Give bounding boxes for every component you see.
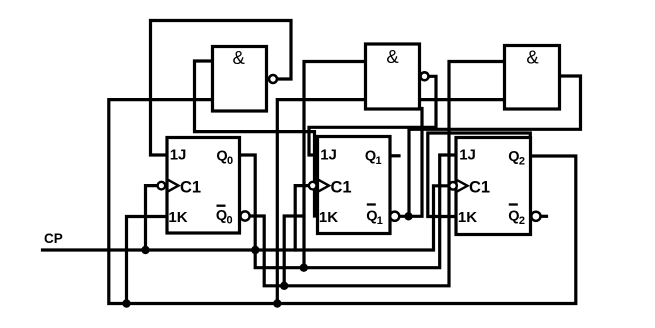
svg-text:Q: Q [365,149,376,165]
flip-flop FF2 clock bubble [309,182,317,190]
wire NAND1 upper input from FF2 1K net [195,61,318,216]
svg-text:0: 0 [227,215,233,227]
svg-text:Q: Q [216,208,227,224]
svg-text:2: 2 [519,215,525,227]
junction dot CP to FF1 clock [141,246,149,254]
junction dot Q1bar at NAND3 return [404,212,412,220]
wire FF2 clock tap from CP [295,186,308,250]
svg-text:1: 1 [376,155,382,167]
flip-flop FF1 [167,138,240,234]
flip-flop FF1 clock bubble [158,182,166,190]
svg-text:Q: Q [216,149,227,165]
junction dot bottom bus to FF1 1K [122,299,130,307]
svg-text:Q: Q [508,149,519,165]
wire NAND2 lower input to bottom bus [277,100,365,304]
junction dot y285 bus branch [280,282,288,290]
flip-flop FF3 clock bubble [449,182,457,190]
svg-text:C1: C1 [331,179,352,197]
svg-text:1J: 1J [320,147,337,164]
wire NAND1 output feedback loop to FF1 1J [151,21,292,156]
svg-text:&: & [386,46,399,67]
wire FF1 clock tap from CP [146,186,158,250]
svg-text:1K: 1K [168,209,187,226]
svg-text:2: 2 [519,156,525,168]
wire FF3 1K feed from FF3 top corner loop [428,133,531,217]
svg-text:1: 1 [377,215,383,227]
svg-text:1K: 1K [458,209,477,226]
wire NAND3 lower input [420,98,505,101]
svg-text:C1: C1 [180,179,201,197]
svg-text:Q: Q [366,209,377,225]
svg-text:1K: 1K [319,209,338,226]
junction dot y268 bus at NAND2 upper input [300,264,308,272]
wire Q1 output stub [390,154,399,157]
wire Q0 output to y268 bus to FF3 1J [240,155,457,268]
flip-flop FF1 Q0bar bubble [240,211,249,220]
flip-flop FF3 Q2bar bubble [531,212,540,221]
svg-text:CP: CP [44,231,63,246]
svg-text:Q: Q [508,209,519,225]
svg-text:C1: C1 [469,179,490,197]
flip-flop FF3 clock triangle [456,180,468,193]
NAND gate G1 output bubble [269,75,277,83]
NAND gate G2 [366,44,420,109]
svg-text:1J: 1J [459,147,476,164]
wire NAND3 output to Q1bar junction [409,76,581,216]
svg-text:1J: 1J [170,147,187,164]
wire FF1 1K from bottom bus [127,217,168,304]
flip-flop FF2 Q1bar bubble [390,212,399,221]
wire branch from Q0bar net vertical to y285 bus [284,216,304,286]
NAND gate G2 output bubble [421,72,429,80]
flip-flop FF2 clock triangle [318,179,330,192]
wire NAND1 lower input / bottom bus / Q2 output [109,100,576,304]
wire CP clock line to FF3 clock [43,186,449,250]
svg-text:0: 0 [227,155,233,167]
junction dot CP at Q0 line [251,246,259,254]
wire Q1bar extension up to NAND2 corner [399,109,422,217]
wire Q0bar output to y285 bus to NAND3 upper input [249,62,504,286]
wire NAND2 upper input to y268 bus junction [304,62,366,268]
flip-flop FF1 clock triangle [167,179,179,192]
svg-text:&: & [526,47,539,68]
wire Q2bar output stub [540,215,546,218]
svg-text:&: & [233,47,246,68]
wire NAND2 output to FF2 1J [309,76,436,155]
junction dot bottom bus at NAND2 lower input [273,299,281,307]
NAND gate G1 [213,47,267,112]
NAND gate G3 [505,46,560,110]
flip-flop FF3 [456,138,531,235]
flip-flop FF2 [318,137,391,234]
